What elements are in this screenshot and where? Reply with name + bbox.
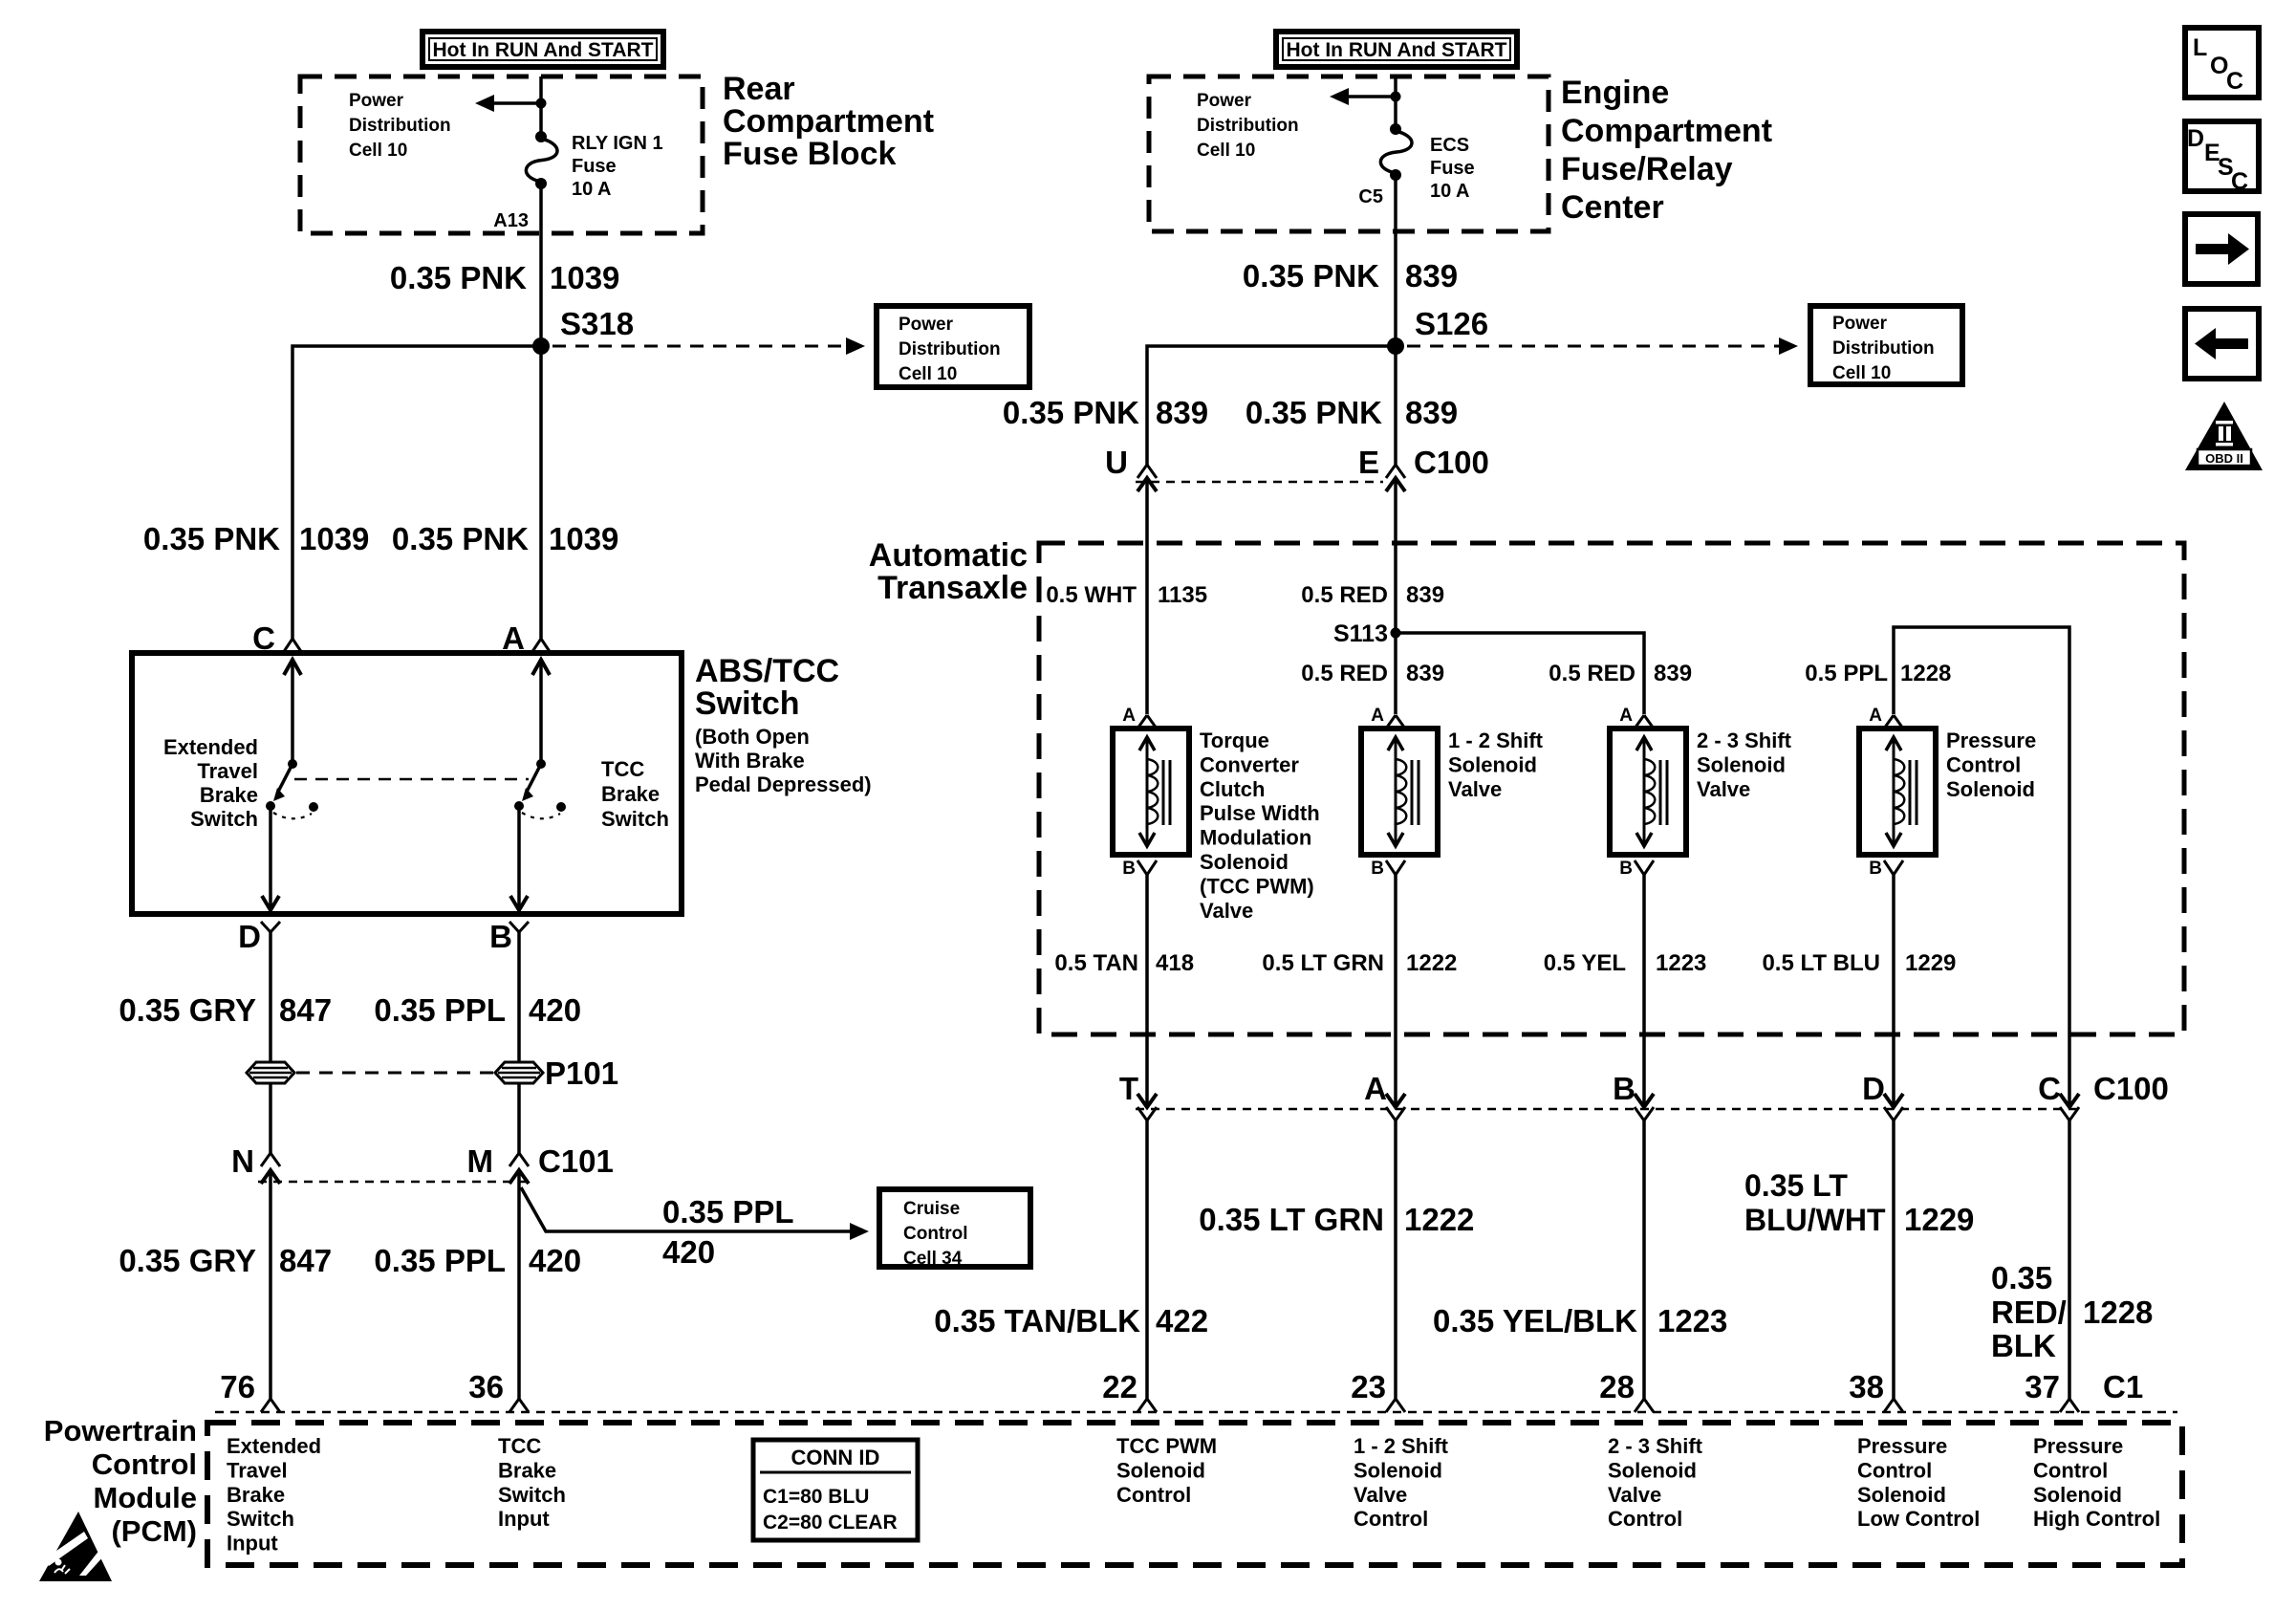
svg-text:Control: Control	[1354, 1507, 1428, 1531]
svg-text:Solenoid: Solenoid	[1857, 1483, 1946, 1507]
svg-text:RED/: RED/	[1991, 1295, 2067, 1330]
svg-text:Solenoid: Solenoid	[1354, 1458, 1442, 1482]
svg-text:Power: Power	[1197, 91, 1252, 111]
svg-text:839: 839	[1156, 395, 1208, 430]
icon: DESC box	[2185, 121, 2259, 195]
PCM pin label: TCC PWM Solenoid Control	[1116, 1434, 1217, 1507]
svg-text:0.35 PNK: 0.35 PNK	[143, 521, 280, 556]
wire: 2-3 shift solenoid valve pin B down to C100	[1642, 874, 1646, 1107]
svg-text:Automatic: Automatic	[869, 537, 1028, 574]
wire label: 0.35 PPL 420	[374, 992, 581, 1028]
svg-text:S126: S126	[1415, 306, 1488, 341]
wire label: 0.35 PNK 1039 (above S318)	[390, 260, 620, 295]
svg-text:Solenoid: Solenoid	[1448, 752, 1537, 776]
box: Power Distribution Cell 10 (left arrow target)	[877, 306, 1029, 387]
svg-text:Pressure: Pressure	[2033, 1434, 2123, 1458]
label: Powertrain Control Module (PCM)	[44, 1414, 197, 1548]
wire label: 0.35 PNK 1039 (left branch)	[143, 521, 370, 556]
PCM pin 28	[1599, 1369, 1654, 1412]
Automatic Transaxle dashed box	[1039, 543, 2184, 1034]
svg-text:28: 28	[1599, 1369, 1635, 1404]
PCM pin label: Pressure Control Solenoid Low Control	[1857, 1434, 1980, 1531]
title: Automatic Transaxle	[869, 537, 1028, 606]
svg-text:Distribution: Distribution	[1832, 338, 1935, 359]
svg-text:N: N	[231, 1143, 254, 1179]
PCM pin label: 2-3 Shift Solenoid Valve Control	[1608, 1434, 1703, 1531]
svg-text:1223: 1223	[1657, 1303, 1727, 1338]
wire: fuse output A13 down to splice S318	[539, 184, 543, 346]
svg-text:0.35 YEL/BLK: 0.35 YEL/BLK	[1433, 1303, 1637, 1338]
svg-text:36: 36	[468, 1369, 504, 1404]
svg-text:839: 839	[1654, 661, 1692, 686]
PCM pin label: Pressure Control Solenoid High Control	[2033, 1434, 2160, 1531]
fuse ECS 10 A	[1380, 123, 1412, 181]
svg-text:Distribution: Distribution	[349, 116, 451, 136]
svg-text:10 A: 10 A	[1430, 181, 1470, 202]
svg-text:420: 420	[529, 1243, 581, 1278]
svg-text:0.35 LT GRN: 0.35 LT GRN	[1199, 1202, 1384, 1237]
wire: fuse output C5 down to splice S126	[1394, 175, 1397, 346]
pin label C5	[1358, 186, 1383, 207]
label: pressure control solenoid	[1946, 729, 2036, 801]
svg-text:Cell 10: Cell 10	[1197, 141, 1255, 161]
svg-text:10 A: 10 A	[572, 179, 612, 200]
svg-text:0.35: 0.35	[1991, 1260, 2052, 1295]
svg-text:U: U	[1105, 445, 1128, 480]
svg-text:0.5 TAN: 0.5 TAN	[1054, 950, 1138, 976]
label: ECS Fuse 10 A	[1430, 135, 1475, 202]
svg-text:Switch: Switch	[227, 1507, 294, 1531]
dashed arrow: S318 to Power Distribution Cell 10	[552, 337, 865, 355]
svg-text:Module: Module	[94, 1481, 198, 1514]
svg-text:L: L	[2193, 34, 2207, 61]
svg-text:D: D	[238, 919, 261, 954]
dashed arrow: S126 to Power Distribution Cell 10	[1407, 337, 1798, 355]
dashed mechanical link between switch levers	[294, 778, 529, 781]
svg-text:0.5 LT BLU: 0.5 LT BLU	[1762, 950, 1880, 976]
solenoid pin A (TCC PWM solenoid (torque converter clutch))	[1122, 706, 1157, 729]
CONN ID table	[753, 1440, 918, 1540]
wire label: 0.35 RED/BLK 1228	[1991, 1260, 2153, 1363]
wire: S318 branch left and down to pin C	[292, 346, 541, 639]
svg-text:A: A	[1364, 1071, 1387, 1106]
svg-text:Extended: Extended	[227, 1434, 321, 1458]
wire label: 0.5 WHT 1135	[1046, 582, 1207, 608]
wire: P101 down to C101 pin M	[517, 1083, 521, 1153]
svg-text:1223: 1223	[1656, 950, 1706, 976]
svg-text:Solenoid: Solenoid	[2033, 1483, 2122, 1507]
svg-text:B: B	[489, 919, 512, 954]
svg-text:S318: S318	[560, 306, 634, 341]
wire: pin B down to P101	[517, 932, 521, 1062]
svg-text:Valve: Valve	[1608, 1483, 1661, 1507]
svg-text:ECS: ECS	[1430, 135, 1469, 156]
svg-text:839: 839	[1406, 661, 1444, 686]
svg-text:OBD II: OBD II	[2205, 451, 2243, 466]
svg-text:C: C	[2231, 168, 2248, 195]
svg-text:Fuse: Fuse	[1430, 158, 1475, 179]
PCM connector dashed line	[215, 1411, 2177, 1414]
svg-text:Pressure: Pressure	[1857, 1434, 1947, 1458]
PCM pin label: TCC Brake Switch Input	[498, 1434, 566, 1531]
svg-text:C1: C1	[2103, 1369, 2143, 1404]
title: Engine Compartment Fuse/Relay Center	[1561, 75, 1772, 226]
svg-text:(PCM): (PCM)	[111, 1514, 197, 1548]
svg-text:1222: 1222	[1406, 950, 1457, 976]
svg-text:0.5 RED: 0.5 RED	[1549, 661, 1635, 686]
svg-text:Cell 34: Cell 34	[903, 1249, 963, 1269]
svg-text:Power: Power	[899, 315, 954, 335]
PCM pin 22	[1102, 1369, 1157, 1412]
icon: LOC box	[2185, 28, 2259, 98]
svg-text:Cell 10: Cell 10	[1832, 363, 1891, 383]
svg-text:Solenoid: Solenoid	[1200, 850, 1289, 874]
solenoid pin A (2-3 shift solenoid valve)	[1619, 706, 1654, 729]
svg-text:B: B	[1122, 859, 1136, 879]
svg-text:22: 22	[1102, 1369, 1137, 1404]
wire label: 0.35 YEL/BLK 1223	[1433, 1303, 1727, 1338]
svg-text:1228: 1228	[1900, 661, 1951, 686]
svg-text:Input: Input	[227, 1532, 278, 1556]
svg-text:Brake: Brake	[498, 1458, 556, 1482]
svg-text:0.35 PNK: 0.35 PNK	[390, 260, 527, 295]
svg-text:839: 839	[1405, 395, 1458, 430]
svg-text:Center: Center	[1561, 189, 1664, 226]
svg-text:Solenoid: Solenoid	[1116, 1458, 1205, 1482]
wire label: 0.35 PNK 839 (E branch)	[1245, 395, 1458, 430]
svg-text:Cell 10: Cell 10	[349, 141, 407, 161]
svg-text:0.35 PPL: 0.35 PPL	[662, 1194, 794, 1229]
svg-text:C100: C100	[1414, 445, 1489, 480]
svg-text:TCC PWM: TCC PWM	[1116, 1434, 1217, 1458]
svg-text:Power: Power	[349, 91, 404, 111]
svg-text:37: 37	[2025, 1369, 2060, 1404]
icon: arrow right box	[2185, 214, 2258, 284]
connector C100 pin E + label C100	[1358, 445, 1489, 491]
svg-text:Converter: Converter	[1200, 752, 1299, 776]
svg-text:C5: C5	[1358, 186, 1383, 207]
PCM pin label: Extended Travel Brake Switch Input	[227, 1434, 321, 1556]
wire label: 0.35 LT BLU/WHT 1229	[1744, 1168, 1974, 1237]
icon: arrow left box	[2185, 309, 2259, 379]
wire label: 0.5 RED 839 (above S113)	[1301, 582, 1444, 608]
svg-text:Switch: Switch	[601, 807, 669, 831]
svg-text:Cruise: Cruise	[903, 1199, 960, 1219]
wire: TCC PWM solenoid (torque converter clutch) pin B down to C100	[1145, 874, 1149, 1107]
svg-text:E: E	[1358, 445, 1379, 480]
svg-text:0.35 TAN/BLK: 0.35 TAN/BLK	[934, 1303, 1140, 1338]
in-line connector P101 (left half)	[247, 1062, 294, 1083]
label C100 (bottom)	[2093, 1071, 2169, 1106]
wire label: 0.35 PNK 839 (U branch)	[1003, 395, 1208, 430]
solenoid coil 1-2 shift solenoid valve	[1361, 729, 1438, 855]
svg-text:C101: C101	[538, 1143, 614, 1179]
svg-text:Modulation: Modulation	[1200, 826, 1311, 850]
solenoid pin B (pressure control solenoid)	[1869, 859, 1903, 879]
wire: C100 pin E down to splice S113	[1394, 478, 1397, 633]
svg-text:D: D	[1862, 1071, 1885, 1106]
svg-text:Transaxle: Transaxle	[877, 570, 1028, 606]
wire label: 0.35 GRY 847 (row 2)	[119, 1243, 332, 1278]
node: feed junction with arrow to Power Distribution (right)	[1330, 88, 1401, 105]
svg-text:38: 38	[1849, 1369, 1884, 1404]
svg-text:Solenoid: Solenoid	[1697, 752, 1786, 776]
svg-text:2 - 3 Shift: 2 - 3 Shift	[1608, 1434, 1703, 1458]
wire label: 0.35 GRY 847	[119, 992, 332, 1028]
ABS/TCC Switch box	[132, 653, 682, 914]
wire: C100 down to PCM	[1642, 1120, 1646, 1399]
svg-text:A13: A13	[493, 210, 529, 231]
svg-text:422: 422	[1156, 1303, 1208, 1338]
connector pin C (ABS/TCC switch)	[252, 620, 302, 656]
svg-text:Distribution: Distribution	[899, 339, 1001, 359]
svg-text:D: D	[2187, 125, 2204, 152]
svg-text:C1=80 BLU: C1=80 BLU	[763, 1486, 869, 1508]
connector C100 pin A	[1364, 1071, 1405, 1120]
label: TCC Brake Switch	[601, 757, 669, 831]
wire label: 0.35 PPL 420 (row 2)	[374, 1243, 581, 1278]
splice S126	[1387, 306, 1488, 355]
svg-text:Valve: Valve	[1448, 777, 1502, 801]
wire: C100 down to PCM	[2068, 1120, 2071, 1399]
wire label: 0.5 TAN 418	[1054, 950, 1194, 976]
svg-text:Extended: Extended	[163, 735, 258, 759]
solenoid coil 2-3 shift solenoid valve	[1610, 729, 1686, 855]
svg-text:Input: Input	[498, 1507, 550, 1531]
svg-text:Clutch: Clutch	[1200, 777, 1265, 801]
solenoid pin B (TCC PWM solenoid (torque converter clutch))	[1122, 859, 1157, 879]
svg-text:1229: 1229	[1904, 1202, 1974, 1237]
connector C100 bottom dashed line	[1136, 1108, 2082, 1111]
wire label: 0.5 YEL 1223	[1544, 950, 1707, 976]
svg-text:0.35 PNK: 0.35 PNK	[1003, 395, 1139, 430]
svg-text:847: 847	[279, 1243, 332, 1278]
solenoid coil pressure control solenoid	[1859, 729, 1936, 855]
node: feed junction with arrow to Power Distribution (left)	[475, 95, 547, 112]
svg-text:A: A	[1122, 706, 1136, 726]
wire: C101 pin M down to PCM pin 36	[517, 1170, 521, 1399]
svg-text:0.5 WHT: 0.5 WHT	[1046, 582, 1137, 608]
power source box "Hot In RUN And START" (left)	[422, 32, 663, 67]
svg-text:With Brake: With Brake	[695, 749, 805, 772]
title: Rear Compartment Fuse Block	[723, 71, 934, 172]
svg-text:C: C	[2226, 68, 2243, 95]
svg-text:P101: P101	[545, 1055, 618, 1091]
label: 1-2 shift solenoid valve	[1448, 729, 1544, 801]
svg-text:839: 839	[1406, 582, 1444, 608]
wire label: 0.35 PNK 839 (above S126)	[1243, 258, 1458, 294]
svg-text:Low Control: Low Control	[1857, 1507, 1980, 1531]
svg-text:Valve: Valve	[1354, 1483, 1407, 1507]
solenoid pin A (1-2 shift solenoid valve)	[1371, 706, 1405, 729]
svg-text:839: 839	[1405, 258, 1458, 294]
svg-text:847: 847	[279, 992, 332, 1028]
svg-text:Valve: Valve	[1697, 777, 1750, 801]
wire: Hot feed down into fuse RLY IGN 1	[539, 76, 543, 137]
svg-text:(Both Open: (Both Open	[695, 725, 810, 749]
svg-text:Switch: Switch	[498, 1483, 566, 1507]
TCC brake switch (right pole)	[510, 659, 566, 912]
wire: Hot feed down into ECS fuse	[1394, 76, 1397, 129]
PCM pin 23	[1351, 1369, 1405, 1412]
label: Power Distribution Cell 10 (inside engine fuse center)	[1197, 91, 1299, 161]
svg-text:Hot In RUN And START: Hot In RUN And START	[1287, 39, 1507, 61]
wire: pressure control solenoid feed from C100 pin C	[1894, 627, 2069, 1107]
wire: 1-2 shift solenoid valve pin B down to C100	[1394, 874, 1397, 1107]
svg-text:Control: Control	[1608, 1507, 1682, 1531]
splice S113	[1333, 620, 1401, 647]
connector C101 pin N	[231, 1143, 280, 1184]
svg-text:High Control: High Control	[2033, 1507, 2160, 1531]
svg-text:418: 418	[1156, 950, 1194, 976]
label: RLY IGN 1 Fuse 10 A	[572, 133, 663, 200]
wire label: 0.5 PPL 1228	[1805, 661, 1951, 686]
fuse RLY IGN 1 10 A	[526, 131, 557, 189]
wire: C100 down to PCM	[1394, 1120, 1397, 1399]
splice S318	[532, 306, 634, 355]
svg-text:A: A	[1619, 706, 1633, 726]
svg-text:0.35 PPL: 0.35 PPL	[374, 992, 506, 1028]
connector C101 dashed line	[258, 1181, 531, 1184]
svg-text:C100: C100	[2093, 1071, 2169, 1106]
svg-text:B: B	[1613, 1071, 1635, 1106]
svg-text:0.5 YEL: 0.5 YEL	[1544, 950, 1626, 976]
svg-text:Pedal Depressed): Pedal Depressed)	[695, 772, 872, 796]
svg-text:TCC: TCC	[601, 757, 644, 781]
connector C100 pin B	[1613, 1071, 1654, 1120]
svg-text:RLY IGN 1: RLY IGN 1	[572, 133, 663, 154]
svg-text:Pressure: Pressure	[1946, 729, 2036, 752]
svg-text:Control: Control	[92, 1447, 197, 1481]
svg-text:Travel: Travel	[197, 759, 258, 783]
svg-text:ABS/TCC: ABS/TCC	[695, 653, 839, 689]
svg-text:Solenoid: Solenoid	[1946, 777, 2035, 801]
wire: C100 down to PCM	[1892, 1120, 1895, 1399]
wire label: 0.35 LT GRN 1222	[1199, 1202, 1474, 1237]
svg-text:Control: Control	[1946, 752, 2021, 776]
svg-text:Travel: Travel	[227, 1458, 288, 1482]
wire: P101 down to C101 pin N	[269, 1083, 272, 1153]
svg-text:0.5 PPL: 0.5 PPL	[1805, 661, 1888, 686]
svg-text:1228: 1228	[2083, 1295, 2153, 1330]
svg-text:1135: 1135	[1158, 582, 1207, 608]
svg-text:(TCC PWM): (TCC PWM)	[1200, 874, 1314, 898]
svg-text:M: M	[467, 1143, 494, 1179]
connector pin D (ABS/TCC switch)	[238, 919, 280, 954]
box: Power Distribution Cell 10 (right arrow target)	[1810, 306, 1962, 384]
svg-text:Solenoid: Solenoid	[1608, 1458, 1697, 1482]
label C1 (PCM connector)	[2103, 1369, 2143, 1404]
branch wire from M to cruise control	[521, 1187, 869, 1240]
svg-text:Pulse Width: Pulse Width	[1200, 801, 1320, 825]
icon: OBD II triangle	[2185, 402, 2263, 470]
svg-text:Brake: Brake	[601, 782, 660, 806]
wire: C100 down to PCM	[1145, 1120, 1149, 1399]
svg-text:1222: 1222	[1404, 1202, 1474, 1237]
connector C100 top dashed line	[1136, 481, 1383, 484]
svg-text:BLK: BLK	[1991, 1328, 2056, 1363]
label: 2-3 shift solenoid valve	[1697, 729, 1792, 801]
solenoid coil TCC PWM solenoid (torque converter clutch)	[1113, 729, 1189, 855]
svg-text:Engine: Engine	[1561, 75, 1669, 111]
svg-text:2 - 3 Shift: 2 - 3 Shift	[1697, 729, 1792, 752]
wire label: 0.35 PPL 420 (cruise branch)	[662, 1194, 794, 1270]
svg-text:S113: S113	[1333, 620, 1388, 647]
wire: S318 down to pin A	[539, 346, 543, 639]
wire: C100 pin U down to TCC PWM solenoid pin A	[1145, 478, 1149, 714]
label: TCC PWM solenoid (torque converter clutch)	[1200, 729, 1320, 923]
svg-text:1 - 2 Shift: 1 - 2 Shift	[1354, 1434, 1449, 1458]
svg-text:Valve: Valve	[1200, 899, 1253, 923]
PCM pin label: 1-2 Shift Solenoid Valve Control	[1354, 1434, 1449, 1531]
svg-text:0.35 PNK: 0.35 PNK	[1245, 395, 1382, 430]
svg-text:B: B	[1619, 859, 1633, 879]
svg-text:76: 76	[220, 1369, 255, 1404]
dashed link between P101 halves	[296, 1072, 493, 1075]
connector C100 pin T	[1119, 1071, 1157, 1120]
svg-text:23: 23	[1351, 1369, 1386, 1404]
wire label: 0.35 PNK 1039 (right branch)	[392, 521, 619, 556]
svg-text:420: 420	[529, 992, 581, 1028]
PCM pin 36	[468, 1369, 529, 1412]
label: Power Distribution Cell 10 (inside rear fuse block)	[349, 91, 451, 161]
wire: S126 branch left and down to C100 pin U	[1147, 346, 1396, 465]
svg-text:0.35 PNK: 0.35 PNK	[1243, 258, 1379, 294]
svg-text:Brake: Brake	[227, 1483, 285, 1507]
wire: pressure control solenoid pin B down to C100	[1892, 874, 1895, 1107]
svg-text:Control: Control	[1116, 1483, 1191, 1507]
box: Cruise Control Cell 34	[879, 1189, 1030, 1269]
svg-text:1 - 2 Shift: 1 - 2 Shift	[1448, 729, 1544, 752]
title: ABS/TCC Switch	[695, 653, 839, 722]
extended travel brake switch (left pole)	[262, 659, 318, 912]
svg-text:Hot In RUN And START: Hot In RUN And START	[433, 39, 654, 61]
svg-text:Distribution: Distribution	[1197, 116, 1299, 136]
svg-text:TCC: TCC	[498, 1434, 541, 1458]
svg-text:1039: 1039	[299, 521, 369, 556]
svg-text:A: A	[1869, 706, 1882, 726]
svg-text:A: A	[1371, 706, 1384, 726]
connector C100 pin C	[2038, 1071, 2079, 1120]
svg-text:T: T	[1119, 1071, 1138, 1106]
wire label: 0.5 RED 839 (2-3 shift)	[1549, 661, 1692, 686]
svg-text:Torque: Torque	[1200, 729, 1269, 752]
wire label: 0.5 LT GRN 1222	[1262, 950, 1457, 976]
svg-text:Compartment: Compartment	[1561, 113, 1772, 149]
svg-text:Brake: Brake	[200, 783, 258, 807]
svg-text:Fuse Block: Fuse Block	[723, 136, 896, 172]
svg-text:Cell 10: Cell 10	[899, 364, 957, 384]
solenoid pin B (1-2 shift solenoid valve)	[1371, 859, 1405, 879]
connector C101 pin M + label C101	[467, 1143, 614, 1184]
solenoid pin B (2-3 shift solenoid valve)	[1619, 859, 1654, 879]
svg-text:Control: Control	[2033, 1458, 2108, 1482]
svg-text:Switch: Switch	[695, 685, 800, 722]
svg-text:Rear: Rear	[723, 71, 795, 107]
Rear Compartment Fuse Block dashed box	[300, 76, 703, 233]
Engine Compartment Fuse/Relay Center dashed box	[1149, 76, 1549, 231]
pin label A13	[493, 210, 529, 231]
connector pin B (ABS/TCC switch)	[489, 919, 529, 954]
wire: C101 pin N down to PCM pin 76	[269, 1170, 272, 1399]
note: (Both Open With Brake Pedal Depressed)	[695, 725, 872, 796]
svg-text:1039: 1039	[549, 521, 618, 556]
svg-text:0.35 LT: 0.35 LT	[1744, 1168, 1848, 1203]
PCM pin 38	[1849, 1369, 1903, 1412]
PCM pin 37	[2025, 1369, 2079, 1412]
svg-text:0.5 RED: 0.5 RED	[1301, 582, 1388, 608]
svg-text:Switch: Switch	[190, 807, 258, 831]
